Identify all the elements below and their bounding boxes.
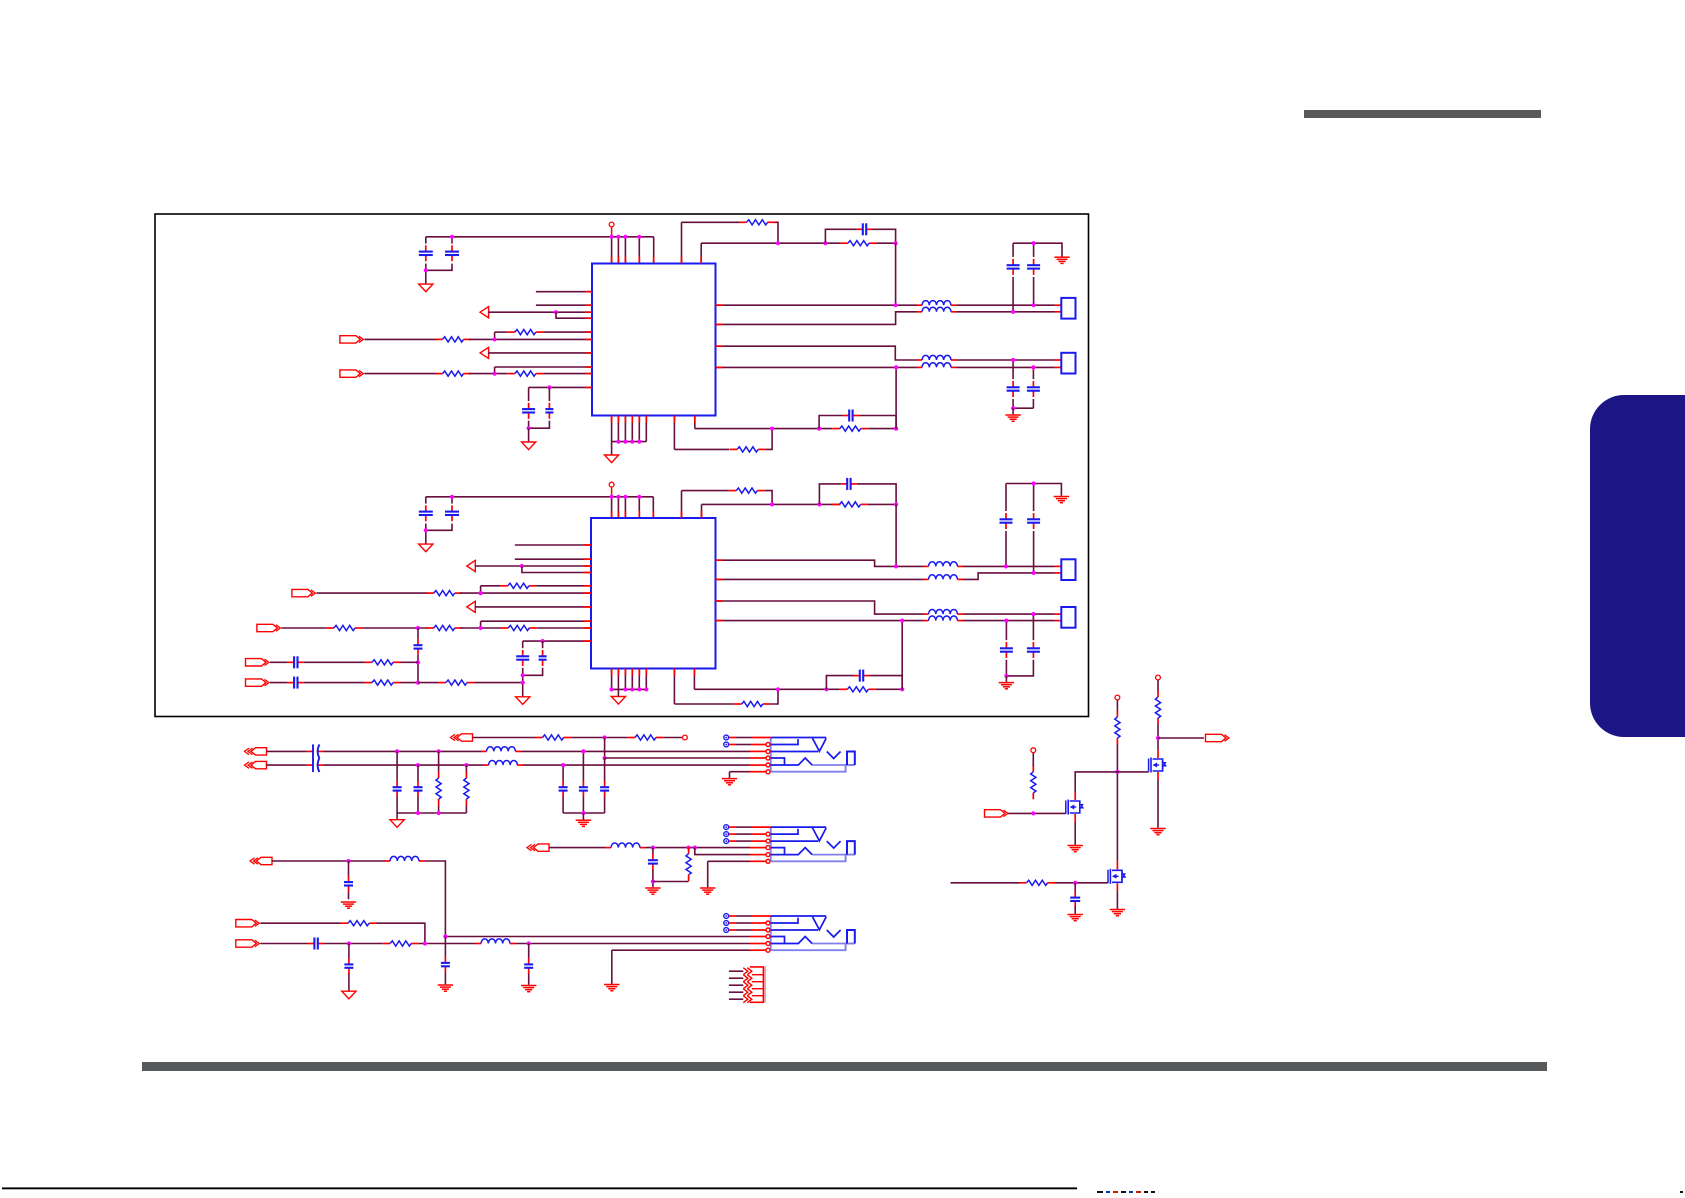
wire HP-L mid [323,750,482,752]
wire cap C11 top lead [425,497,427,504]
junction C32 tap [651,846,655,850]
wire HP-L to cap [267,750,307,752]
port MIC3-IN [292,589,316,596]
wire tap2 down [417,765,419,781]
wire IC2 bottom pin x=625.4 [624,669,626,690]
Q1 drain stub [1157,750,1159,759]
junction C26 tap [395,749,399,753]
resistor R17 [535,735,571,740]
audio jack J3 (line) switch wire 3 [729,929,766,931]
connector CN4 [1061,607,1075,628]
resistor R8b [426,625,462,630]
wire R9 to IC2 [537,627,591,629]
wire OUT2R from IC1 [716,366,918,368]
resistor R10 [365,660,401,665]
capacitor C24 (polarized) [307,744,323,758]
port CTRL-OUT [1206,734,1230,741]
wire down to ground [528,428,530,441]
junction C10/OUT2R [1031,365,1035,369]
wire up to cap C21 [826,676,853,690]
ground G23 (bars) [1110,910,1125,916]
capacitor C33 [441,957,450,973]
resistor R18 [627,735,663,740]
junction cap branch q9 [416,626,420,630]
junction IC2 bus x=639.3 [637,495,641,499]
no-connect vertical to bus [611,227,613,237]
ground G21 (bars) [1150,829,1165,835]
resistor R24 [1115,711,1120,745]
junction node F [894,502,898,506]
wire IC1 pin up x=701.2 [700,243,702,263]
junction rowB [416,681,420,685]
junction C6/OUT1R [1011,310,1015,314]
capacitor C30 [600,781,609,797]
wire C10 top lead [1032,367,1034,379]
wire JP1 pin 4 [729,991,743,993]
bottom cut-off footer text [1097,1191,1683,1193]
wire IC2 top pin x=639.3 [638,497,640,518]
pull-up lead 3 [1032,753,1034,766]
wire IC1 bottom pin x=639.3 [638,416,640,442]
gray rule bottom [142,1062,1547,1071]
wire tap down [348,861,350,876]
ground G7 (arrow) [516,697,530,705]
junction C16/C17 [521,673,525,677]
junction SPK-L/R [423,941,427,945]
wire pin y=367.0 [495,366,592,368]
wire C16 bottom down [522,668,524,697]
capacitor C19 [1000,513,1013,529]
wire to cap C37 [1074,883,1076,893]
wire bus to ground [396,813,398,820]
Q3 drain stub [1116,861,1118,870]
junction C1/C2 ground node [424,268,428,272]
ground G9 (bars) [1054,497,1069,503]
wire R5 to node C [766,429,773,450]
junction C20/OUT3R [1032,571,1036,575]
junction C9/OUT2L [1011,358,1015,362]
wire node F down to OUT3L [895,504,897,566]
wire C22 bottom [1005,660,1007,676]
port HP-OUT-L [245,748,267,755]
wire to jack2 row5 [695,848,750,855]
wire C33 to ground [444,972,446,984]
resistor R2b [435,371,471,376]
wire to jack1 row4 [605,757,750,759]
wire feedback line IC2 top [702,503,841,505]
capacitor C17 [539,650,547,666]
wire FB1 to connector [957,304,1055,306]
wire R25 to Q1 drain [1157,725,1159,750]
audio jack J1 (headphone) [771,738,855,772]
junction node E [770,502,774,506]
inductor FB2 [917,307,957,312]
connector CN1 [1061,298,1075,319]
wire bus to ground IC2 [617,689,619,696]
wire OUT3R jog to connector [963,573,1055,580]
junction bypass caps IC2 [541,639,545,643]
wire bus2 to ground [582,813,584,820]
inductor FB10 [483,761,523,766]
wire C32 bottom [652,870,654,888]
wire IC2 bottom pin x=632.3 [631,669,633,690]
capacitor C37 [1070,891,1080,907]
inductor FB3 [917,355,957,360]
pull-up lead 2 [1157,680,1159,691]
inductor FB4 [917,363,957,368]
ground G14 (bars) [341,902,356,908]
wire SPK-R to cap [260,943,308,945]
junction C3/C4 ground [527,426,531,430]
junction pair2 ground node [1011,406,1015,410]
wire IC2 pin stub y=559.2 [515,558,591,560]
wire OUT1R from IC1 [716,312,918,325]
wire JP1 pin 5 [729,998,743,1000]
capacitor C7 [1027,259,1040,275]
wire jack3 row6 gnd [612,949,750,951]
junction cap branch [823,241,827,245]
junction node H [900,687,904,691]
wire IC2 bottom pin x=611.6 [611,669,613,690]
junction C27 tap [416,763,420,767]
wire mic to jack2 row4 [646,847,751,849]
wire C17 bottom link [523,668,543,676]
wire IC1 bottom bus [612,441,647,443]
junction C35 tap [347,941,351,945]
op-amp U2 audio codec [591,518,716,669]
inductor FB13 [476,939,516,944]
no-connect circle pull-up 1 [1115,695,1120,700]
port MIC1-IN [340,336,364,343]
Q2 source stub [1074,814,1076,822]
wire port to R1b [364,338,437,340]
wire C34 to R23 [324,943,383,945]
ground G11 (arrow) [390,820,404,828]
wire R11 to junction [401,682,419,684]
junction detect branch [603,735,607,739]
wire Q3 source to ground [1116,891,1118,909]
bottom black line [2,1187,1077,1189]
resistor R27 [1019,880,1055,885]
wire to resistor R3 [682,221,740,223]
wire P4 to IC2 [475,606,591,608]
pull-up lead [1116,700,1118,711]
transistor Q2 (MOSFET) [1066,800,1084,815]
wire IC1 pin down x=674.4 [673,416,675,450]
wire HP-DET to R17 [473,737,536,739]
wire IC2 bottom pin x=639.3 [638,669,640,690]
wire P2 to IC1 [488,352,592,354]
port LINE-IN-R [246,659,270,666]
wire OUT3L from IC2 [716,560,924,566]
wire ground rail pair1 [1013,243,1062,256]
wire to cap C16 [522,641,524,648]
audio jack J2 (microphone) switch wire 2 [729,833,766,835]
wire C18 to node F [857,484,896,505]
wire R14 to node F [868,503,896,505]
junction cap branch IC2 [817,502,821,506]
junction P1 net [554,310,558,314]
wire tap5 down [562,765,564,781]
audio jack J3 (line) switch contact 2 [724,921,729,926]
capacitor C32 [648,854,658,870]
resistor R3 [739,220,775,225]
wire rowA to cap [270,661,288,663]
wire corner tap down [444,937,446,957]
junction bus t3 [437,811,441,815]
wire Q1 gate to Q2 drain [1075,772,1148,792]
audio jack J2 (microphone) switch contact 1 [724,825,729,830]
wire step to pin y=572.5 [522,566,591,573]
capacitor C3 [522,403,535,419]
capacitor C23 [1027,642,1040,658]
junction C19/OUT3L [1004,564,1008,568]
wire C3 bottom [528,421,530,429]
resistor R7b [426,591,462,596]
wire IC1 bottom pin x=632.3 [631,416,633,442]
junction bottom bus x=625.4 [623,440,627,444]
junction R7 branch [479,591,483,595]
junction C11/C12 ground node [424,528,428,532]
wire OUT4L from IC2 [716,601,924,614]
input arrow port P4 [467,601,476,612]
wire rowB to R11 [304,682,365,684]
wire IC2 pin down x=694.4 [693,669,695,690]
junction IC1 bus x=639.3 [637,235,641,239]
resistor R1 [507,330,543,335]
port SPK-OUT-L [236,920,259,927]
transistor Q1 (MOSFET) [1149,758,1167,773]
resistor R21 [686,847,691,881]
capacitor C34 [308,938,324,950]
junction tap6 [581,749,585,753]
junction with R12 line [521,681,525,685]
audio jack J1 (headphone) switch wire 2 [729,744,766,746]
wire R1 to IC1 [543,331,592,333]
ground G2 (arrow) [522,442,536,450]
resistor R2 [507,371,543,376]
port SPK-OUT-R [236,940,259,947]
junction IC2 bottom bus x=611.6 [610,687,614,691]
wire IC1 top pin x=625.4 [624,237,626,264]
wire FB8 to connector [963,620,1055,622]
wire IC1 bottom pin x=618.4 [617,416,619,442]
ground G1 (arrow) [419,284,433,292]
wire C31 to ground [348,892,350,900]
wire port to R7b [316,592,428,594]
wire P3 to IC2 [475,565,591,567]
wire C22 top lead [1005,621,1007,641]
wire JP1 pin 2 [729,977,743,979]
wire C4 bottom link [529,421,550,429]
wire R1b to IC1 pin y=339.4 [469,338,592,340]
wire R8 to R8b [362,627,428,629]
wire to resistor R1 [495,331,508,333]
wire bottom link [653,881,689,883]
resistor R26 [1031,765,1036,799]
ground G4 (bars) [1054,257,1069,263]
resistor R8 [326,625,362,630]
no-connect circle IC1 pin [609,222,614,227]
junction C7/OUT1L [1032,303,1036,307]
junction OUT1L/feedback [894,303,898,307]
inductor FB12 [606,843,646,848]
wire cap C12 top lead [451,497,453,504]
ground G5 (bars) [1005,415,1020,421]
wire IC2 pin stub y=545 [515,544,591,546]
wire HP-R mid [323,764,484,766]
capacitor C6 [1007,259,1020,275]
connector CN2 [1061,353,1075,374]
blue side tab [1590,395,1685,737]
ground G3 (arrow) [605,455,619,463]
wire Q3 gate long [951,882,1020,884]
wire C20 to OUT3R [1033,531,1035,573]
Q1 source stub [1157,772,1159,780]
wire C28 to bus2 [562,797,564,813]
wire IC1 top supply bus [426,236,654,238]
junction IC2 bus x=618.4 [616,495,620,499]
audio jack J3 (line) switch contact 3 [724,928,729,933]
audio jack J1 (headphone) switch wire 1 [729,737,771,739]
capacitor C1 [419,245,433,261]
audio jack J2 (microphone) [771,827,855,861]
audio jack J2 (microphone) switch contact 2 [724,832,729,837]
capacitor C9 [1007,381,1020,397]
junction R20 tap [464,763,468,767]
wire step down IC2 [480,621,482,628]
wire node B down to OUT1L [895,243,897,305]
wire C6 rail lead [1012,243,1014,257]
resistor R16 [840,687,876,692]
port LINE-IN-L [257,624,281,631]
junction bypass caps [547,385,551,389]
wire jack2 gnd down [707,861,709,887]
audio jack J3 (line) pin circles [766,921,770,952]
inductor FB7 [923,610,963,615]
wire C13 to rowA/rowB [417,655,419,683]
ground G15 (bars) [645,888,660,894]
ground G17 (bars) [438,985,453,991]
wire to cap C4 [548,387,550,401]
wire FB11 to jack3 row4 corner [425,861,446,937]
ground G24 (bars) [1068,915,1083,921]
junction IC1 bus x=611.6 [610,235,614,239]
wire branch down to port line [494,332,496,339]
wire IC1 bottom pin x=646.3 [645,416,647,442]
wire C29 to bus2 [582,797,584,813]
wire C11 bottom to ground [425,524,427,545]
ground G16 (bars) [700,888,715,894]
resistor R12 [438,680,474,685]
no-connect circle test point [683,735,688,740]
wire R23 onward [419,943,476,945]
wire SPK-L to R22 [260,922,340,924]
wire C9 top lead [1012,360,1014,379]
wire to jack3 row5 [516,943,751,945]
wire to resistor R13 [682,490,729,492]
inductor FB9 [481,747,521,752]
wire FB3 to connector [957,359,1055,361]
wire C8 to node D [859,416,896,429]
junction OUT3L/feedback [894,564,898,568]
audio jack J3 (line) switch wire 2 [729,922,766,924]
wire C19 rail lead [1005,484,1007,512]
junction IC2 bottom bus x=646.3 [644,687,648,691]
junction C23/OUT4L [1031,612,1035,616]
wire tap7 down [604,758,606,781]
port CTRL-IN [985,810,1009,817]
junction IC2 bus x=625.4 [623,495,627,499]
junction C22/OUT4R [1004,619,1008,623]
junction C36 tap [527,941,531,945]
junction node C [770,427,774,431]
ground G22 (bars) [1068,846,1083,852]
wire cap C2 top lead [451,237,453,244]
capacitor C22 [1000,642,1013,658]
wire OUT2L from IC1 [716,346,918,360]
wire OUT3R from IC2 [716,578,924,580]
junction pair2 IC2 ground node [1004,674,1008,678]
ground G18 (arrow) [342,991,356,999]
wire lower feedback line IC2 [694,688,839,690]
capacitor C35 [344,958,353,974]
wire detect down to jack row4 [604,738,606,759]
junction OUT2R/feedback [894,365,898,369]
no-connect circle pull-up 2 [1156,675,1161,680]
connector CN1 pin stubs [1055,304,1062,306]
junction rail/C7 [1032,241,1036,245]
ground G13 (bars) [722,779,737,785]
wire JP1 pin 1 [729,970,743,972]
wire IC2 pin up x=701.5 [701,504,703,518]
audio jack J1 (headphone) pin circles [766,743,770,774]
ground G6 (arrow) [419,544,433,552]
capacitor C25 (polarized) [307,758,323,772]
junction IC1 bus x=625.4 [623,235,627,239]
junction tap5 [561,763,565,767]
wire IC1 top pin x=639.3 [638,237,640,264]
wire IC1 pin up x=681.5 [681,222,683,263]
wire IC1 top pin x=618.4 [617,237,619,264]
ground G10 (bars) [999,683,1014,689]
junction bottom bus x=639.3 [637,440,641,444]
capacitor C13 [414,639,423,655]
capacitor C10 [1027,381,1040,397]
wire node H up to OUT4R [901,621,903,690]
junction R21 top [687,846,691,850]
wire tap down [348,944,350,959]
wire IC2 pin down x=674.4 [673,669,675,705]
capacitor C29 [579,781,588,797]
wire FB9 onward [521,750,556,752]
wire IC2 pin up x=681.5 [681,491,683,518]
wire FB4 to connector [957,366,1055,368]
wire R13 to node E [765,491,772,505]
wire C5 to node B [873,229,896,243]
wire C26 to bus [396,797,398,813]
wire C19 to OUT3L [1005,531,1007,566]
junction IC2 bottom bus x=625.4 [623,687,627,691]
capacitor C15 [288,677,304,689]
ground G20 (bars) [604,985,619,991]
gray rule top right [1304,110,1541,118]
capacitor C11 [419,505,433,521]
resistor R22 [341,921,377,926]
jumper header JP1 (red) [743,967,765,1003]
wire C21 to node H [870,676,903,690]
wire P1 to IC1 [488,311,592,313]
